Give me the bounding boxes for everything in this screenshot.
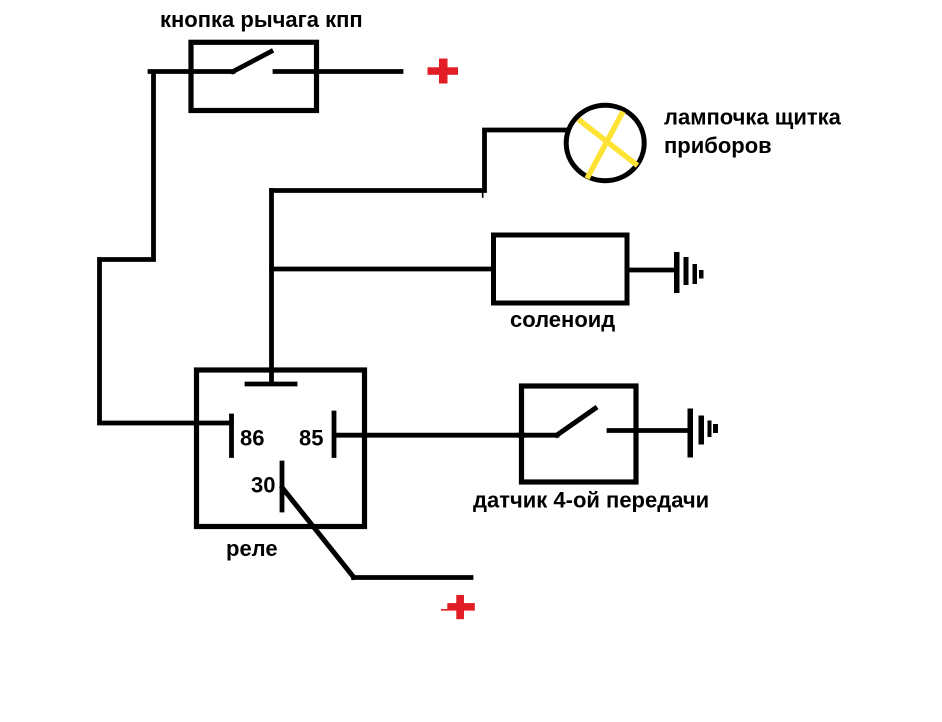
svg-text:лампочка щитка: лампочка щитка — [664, 105, 842, 130]
svg-text:85: 85 — [299, 426, 323, 451]
svg-text:приборов: приборов — [664, 133, 772, 158]
svg-text:датчик 4-ой передачи: датчик 4-ой передачи — [473, 488, 709, 513]
svg-text:реле: реле — [226, 536, 278, 561]
svg-text:30: 30 — [251, 473, 275, 498]
svg-text:кнопка рычага кпп: кнопка рычага кпп — [160, 7, 363, 32]
svg-text:86: 86 — [240, 426, 264, 451]
svg-text:соленоид: соленоид — [510, 307, 615, 332]
